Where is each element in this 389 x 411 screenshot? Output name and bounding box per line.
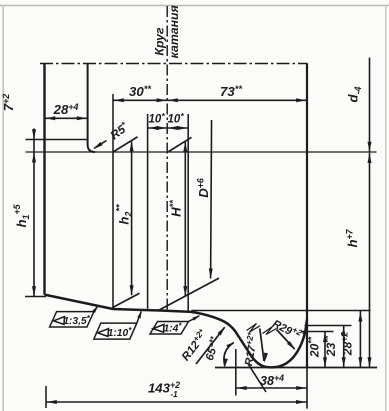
back face (left vertical) <box>43 64 45 295</box>
flag slope 1:4 <box>150 315 200 334</box>
label R29+2* zigzag <box>263 327 277 335</box>
ext line 28 (long) <box>192 310 371 312</box>
dim h2** <box>115 141 134 295</box>
label R12+2* <box>178 326 226 364</box>
ext line 20 <box>302 331 334 333</box>
scan border top <box>0 5 389 7</box>
inner face extension down <box>306 368 308 409</box>
dim 30** <box>113 84 167 102</box>
svg-text:катания: катания <box>167 4 181 58</box>
tread extension left (h1 base) <box>25 296 46 298</box>
slant extension 1 (at 1:4 kink) <box>159 278 220 310</box>
dim line left shared <box>33 129 35 297</box>
ext line 23 <box>305 325 352 327</box>
dim 7+2 arrows <box>1 94 36 163</box>
slant extension 2 (at 1:10 kink) <box>113 293 140 307</box>
slash above line B left <box>114 137 138 152</box>
ext line 143 left <box>45 386 47 408</box>
dim 143+2-1 <box>46 380 307 404</box>
dim 73** <box>167 84 307 102</box>
inner face (right vertical) <box>306 64 308 368</box>
label Krug kataniya <box>153 4 182 58</box>
dim h+7 <box>345 153 372 367</box>
scan border right <box>385 5 387 411</box>
reference line B (long horizontal) <box>26 151 377 153</box>
dim D+6 <box>196 120 213 279</box>
reference line A (7+2 upper) <box>26 139 87 141</box>
svg-text:Круг: Круг <box>153 27 167 56</box>
svg-text:1:3,5*: 1:3,5* <box>63 314 90 327</box>
ext line 30 left <box>112 94 114 309</box>
65 deg face extension below tip line <box>249 365 267 393</box>
label R17+2* zigzag <box>247 324 261 333</box>
dim 28+2 <box>340 311 363 367</box>
dim 20** <box>307 332 328 367</box>
dim 65deg arc <box>201 335 233 367</box>
label R17+2* <box>240 329 268 367</box>
dim 10* left <box>148 111 168 130</box>
flange tip line <box>215 367 377 369</box>
dim d-4 <box>346 58 372 153</box>
tread + flange profile <box>45 295 307 368</box>
flag slope 1:3.5 <box>50 305 99 327</box>
slash above line B right <box>169 137 192 151</box>
ext line 10 left <box>147 114 149 309</box>
dim 28+4 <box>45 102 88 120</box>
label R5* <box>93 119 131 149</box>
scan border left <box>2 5 4 411</box>
flag slope 1:10 <box>94 310 142 339</box>
ext line 38 left <box>235 349 237 396</box>
dim h1+5 arrows <box>12 204 36 296</box>
ext line 10 right <box>187 114 189 312</box>
step vertical with R5 fillet <box>88 64 95 153</box>
dim 10* right <box>167 111 188 130</box>
dim H** <box>168 142 187 297</box>
dim 23** <box>323 326 346 367</box>
centerline (rolling circle axis) <box>166 6 168 311</box>
rim top chain line <box>40 63 308 65</box>
label R29+2* <box>270 315 307 350</box>
dim 38+4 <box>236 373 307 390</box>
